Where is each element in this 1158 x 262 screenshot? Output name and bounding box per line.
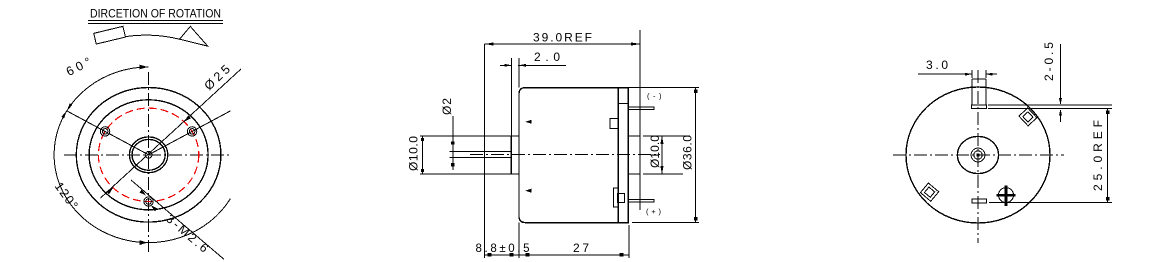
terminal slot top — [971, 79, 986, 109]
extension line bushing face — [510, 58, 512, 136]
svg-text:(-): (-) — [647, 91, 662, 100]
dimension 2-0.5 — [1042, 42, 1062, 122]
seam tab upper — [610, 118, 618, 128]
arc arrow at top — [140, 65, 148, 70]
motor inner circle — [89, 100, 208, 210]
extension lines slot thickness — [988, 104, 1112, 106]
rotation arrow (curved arrow symbol) — [94, 26, 208, 46]
seam tab lower — [613, 188, 618, 207]
seam notch top — [618, 103, 628, 105]
svg-text:2.0: 2.0 — [534, 50, 560, 64]
dimension 25.0REF — [1091, 109, 1109, 203]
centerline horizontal right view — [893, 154, 1064, 156]
dimension Ø10.0 left — [406, 136, 511, 174]
dimension 2.0 — [500, 50, 566, 67]
arc arrows at 150 deg — [67, 103, 73, 111]
can end seam line — [617, 88, 619, 223]
mounting hole top-right — [187, 127, 196, 136]
label 120deg — [52, 179, 81, 211]
front bushing — [511, 136, 519, 174]
shaft top line — [450, 151, 512, 153]
svg-text:DIRCETION OF ROTATION: DIRCETION OF ROTATION — [90, 7, 221, 21]
position symbol — [997, 186, 1016, 206]
svg-text:2-0.5: 2-0.5 — [1042, 42, 1056, 81]
extension line can end bottom — [628, 225, 630, 258]
dimension Ø36.0 — [628, 88, 699, 223]
label 3-M2.6 — [163, 212, 211, 256]
mounting hole bottom — [144, 197, 153, 206]
extension line rear face — [639, 30, 641, 210]
rear shaft circles — [971, 148, 985, 162]
label Ø25 — [202, 62, 233, 93]
dimension 27 — [519, 241, 629, 256]
terminal bar bottom — [972, 199, 986, 203]
angular dimension arc — [54, 67, 230, 243]
spoke to top-right hole — [149, 111, 231, 155]
extension line bottom flat — [989, 202, 1112, 204]
leader line 3-M2.6 — [131, 180, 224, 259]
svg-text:Ø10.0: Ø10.0 — [406, 136, 420, 171]
motor outer circle — [76, 88, 221, 223]
weld mark lower — [525, 189, 531, 193]
motor circle rear — [906, 87, 1050, 223]
spoke to top-left hole (extension for angle dims) — [67, 111, 149, 155]
extension line body face bottom — [518, 223, 520, 258]
terminal pin top — [628, 107, 654, 109]
dimension 8.8+-0.5 — [476, 243, 530, 256]
title: DIRCETION OF ROTATION — [88, 7, 223, 24]
svg-text:Ø2: Ø2 — [440, 98, 454, 115]
lug upper-right — [1019, 108, 1037, 126]
terminal pin bottom — [628, 200, 654, 202]
bolt circle Ø25 (red dashed) — [98, 108, 198, 201]
lug lower-left — [920, 183, 938, 201]
arc arrow at bottom — [140, 240, 148, 245]
svg-text:3.0: 3.0 — [926, 58, 948, 72]
brush box lower — [618, 193, 625, 202]
shaft hub circles — [129, 137, 167, 173]
dimension 3.0 — [918, 58, 997, 78]
centerline vertical — [148, 72, 150, 252]
weld mark upper — [525, 120, 531, 124]
shaft bottom line — [450, 157, 512, 159]
motor can outline — [519, 88, 628, 223]
svg-text:Ø36.0: Ø36.0 — [681, 135, 695, 170]
centerline of shaft — [470, 154, 660, 156]
rear boss — [628, 136, 640, 174]
centerline horizontal — [64, 154, 232, 156]
dimension Ø2 — [440, 98, 455, 170]
arrowhead 3-M2.6 — [139, 190, 146, 196]
dimension Ø10.0 right — [643, 135, 690, 174]
svg-text:Ø10.0: Ø10.0 — [648, 135, 662, 168]
label 60deg — [64, 55, 94, 79]
dimension 39.0REF — [485, 30, 640, 45]
rear hub boss — [957, 136, 998, 173]
centerline vertical right view — [977, 70, 979, 243]
svg-text:(+): (+) — [646, 207, 662, 216]
arrowheads on Ø25 leader — [184, 115, 191, 122]
mounting hole top-left — [100, 127, 109, 136]
extension line body face — [518, 58, 520, 88]
extension line at shaft tip — [484, 44, 486, 258]
leader line Ø25 — [101, 69, 242, 198]
